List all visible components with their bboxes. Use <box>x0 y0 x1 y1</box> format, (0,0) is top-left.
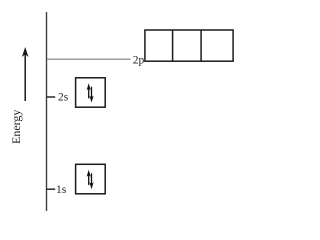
2s tick <box>47 96 56 98</box>
1s tick <box>47 188 56 190</box>
energy axis vertical line <box>46 12 48 211</box>
energy arrow shaft <box>24 53 26 101</box>
2s orbital box <box>76 78 106 107</box>
1s up electron arrow <box>87 170 91 185</box>
svg-text:Energy: Energy <box>9 110 23 144</box>
svg-text:2s: 2s <box>58 92 69 104</box>
2p box divider 2 <box>200 30 202 61</box>
svg-text:2p: 2p <box>133 54 145 66</box>
1s orbital box <box>76 164 106 194</box>
2p orbital boxes outline <box>145 30 233 61</box>
2s up electron arrow <box>87 83 91 98</box>
2s down electron arrow <box>89 87 93 103</box>
energy arrow head <box>22 47 29 57</box>
2p box divider 1 <box>172 30 174 61</box>
2p level line <box>47 58 131 60</box>
1s down electron arrow <box>89 173 93 189</box>
svg-text:1s: 1s <box>56 184 67 196</box>
